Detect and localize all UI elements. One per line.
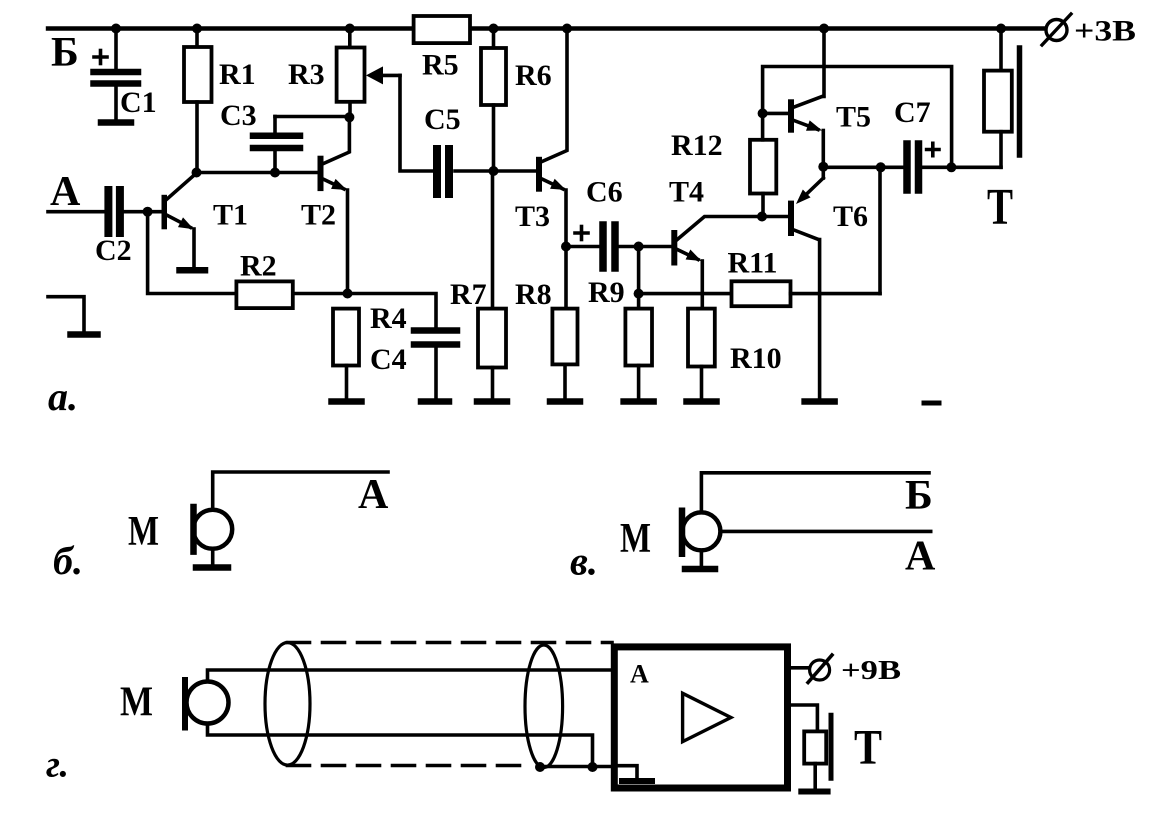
svg-text:T: T xyxy=(987,179,1013,236)
wire base node T2 xyxy=(197,171,318,175)
transistor T6 xyxy=(788,167,823,399)
node junction R1-rail xyxy=(192,24,202,34)
wire bootstrap top xyxy=(763,67,952,168)
transistor T4 xyxy=(671,217,762,309)
svg-text:г.: г. xyxy=(46,744,69,786)
svg-text:в.: в. xyxy=(570,539,598,584)
svg-text:M: M xyxy=(120,679,153,725)
svg-text:а.: а. xyxy=(48,374,78,419)
wire mic to А xyxy=(720,530,930,534)
svg-text:R7: R7 xyxy=(450,278,487,311)
svg-text:T2: T2 xyxy=(301,199,336,232)
node rail-R6 xyxy=(489,24,499,34)
wire node to T3 base xyxy=(494,169,537,173)
resistor R2 xyxy=(236,281,292,308)
node shield/ground xyxy=(588,762,598,772)
wire mic to A xyxy=(213,472,388,509)
ground (R10) xyxy=(687,398,717,405)
stray mark xyxy=(924,401,939,406)
node R3/C3/T2 collector xyxy=(344,112,354,122)
terminal +9V xyxy=(791,655,832,683)
svg-text:T6: T6 xyxy=(833,200,868,233)
ground (mic в) xyxy=(685,566,715,573)
wire power rail right segment xyxy=(470,26,1043,30)
svg-text:Б: Б xyxy=(905,473,933,519)
svg-text:R9: R9 xyxy=(588,276,625,309)
node rail-T3 collector xyxy=(562,24,572,34)
ground (inside amp) xyxy=(617,766,652,781)
transistor T1 xyxy=(162,174,197,268)
svg-text:C1: C1 xyxy=(120,86,157,119)
resistor R8 xyxy=(552,309,577,399)
capacitor C5 xyxy=(437,149,494,194)
svg-text:R12: R12 xyxy=(671,129,723,162)
node T1 collector / R1 xyxy=(192,168,202,178)
capacitor C7 xyxy=(907,143,951,190)
wire shield dashed top xyxy=(288,641,613,645)
capacitor C2 xyxy=(108,190,161,233)
transistor T3 xyxy=(536,29,568,309)
microphone M (г) xyxy=(185,680,229,728)
svg-text:+3B: +3B xyxy=(1074,15,1136,48)
node R9 / R11 xyxy=(634,289,644,299)
input common ground lead xyxy=(48,297,84,331)
amplifier triangle xyxy=(683,693,731,741)
node rail-R3 xyxy=(345,24,355,34)
wire bottom conductor xyxy=(208,724,593,768)
svg-text:C2: C2 xyxy=(95,234,132,267)
wire power rail left segment xyxy=(48,26,414,30)
cable shield ellipse right xyxy=(525,645,563,768)
node C6 / R9 / T4 base xyxy=(634,242,644,252)
svg-text:R6: R6 xyxy=(515,59,552,92)
wire feedback to R2 xyxy=(148,212,237,294)
svg-text:C5: C5 xyxy=(424,103,461,136)
microphone M (в) xyxy=(682,511,720,566)
capacitor C6 xyxy=(566,225,639,268)
svg-text:T: T xyxy=(854,719,882,775)
wire R3 wiper to C5 xyxy=(400,75,433,171)
ground (R9) xyxy=(624,398,654,405)
resistor R7 xyxy=(478,171,506,399)
ground (C1) xyxy=(101,119,131,126)
wire to T4 base xyxy=(639,245,672,249)
resistor R4 xyxy=(333,289,359,399)
svg-text:А: А xyxy=(358,472,389,518)
node R12 / T4 collector / T6 base xyxy=(757,212,767,222)
svg-text:R11: R11 xyxy=(728,247,778,280)
wire output to C7 xyxy=(823,166,903,170)
svg-text:А: А xyxy=(50,169,81,215)
ground (C4) xyxy=(421,398,449,405)
terminal +3V xyxy=(1042,14,1071,45)
node rail-T5 xyxy=(819,24,829,34)
cable shield ellipse left xyxy=(265,643,310,766)
svg-text:M: M xyxy=(128,509,159,555)
capacitor C4 xyxy=(348,294,458,399)
transistor T5 xyxy=(763,29,824,167)
resistor R11 xyxy=(639,167,880,306)
svg-text:R1: R1 xyxy=(219,58,256,91)
node rail-T xyxy=(996,24,1006,34)
transistor T2 xyxy=(318,117,350,293)
svg-text:А: А xyxy=(905,534,936,580)
svg-text:C6: C6 xyxy=(586,176,623,209)
wire shield dashed bottom xyxy=(288,764,528,768)
svg-text:R5: R5 xyxy=(422,49,459,82)
svg-text:T3: T3 xyxy=(515,200,550,233)
svg-text:б.: б. xyxy=(53,538,83,583)
ground (T1 emitter) xyxy=(180,267,206,274)
wire mic to Б xyxy=(701,473,929,511)
svg-text:T1: T1 xyxy=(213,199,248,232)
amplifier box xyxy=(614,647,787,788)
node T3 emitter / C6 xyxy=(561,242,571,252)
ground (R8) xyxy=(550,398,580,405)
node T5 base xyxy=(758,108,768,118)
svg-text:M: M xyxy=(620,516,651,562)
ground (R4) xyxy=(332,398,362,405)
svg-text:R4: R4 xyxy=(370,302,407,335)
wire R2 to node xyxy=(293,292,348,296)
ground (T6) xyxy=(805,398,835,405)
ground (T г) xyxy=(801,789,827,795)
resistor R10 xyxy=(688,309,715,399)
ground (mic б) xyxy=(196,564,228,571)
resistor R1 xyxy=(184,29,212,175)
svg-text:+9B: +9B xyxy=(841,655,901,685)
capacitor C3 xyxy=(253,117,349,173)
node R6/C5/T3 base xyxy=(489,166,499,176)
svg-text:R10: R10 xyxy=(730,342,782,375)
svg-text:Б: Б xyxy=(51,30,79,76)
wire T6 base xyxy=(762,215,788,219)
svg-text:C7: C7 xyxy=(894,96,931,129)
capacitor C1 xyxy=(94,29,139,121)
node C7 / T / bootstrap xyxy=(946,162,956,172)
svg-text:R2: R2 xyxy=(240,250,277,283)
wire C7 to T xyxy=(951,166,1001,170)
earphone T (г) xyxy=(791,705,831,789)
ground (R7) xyxy=(477,398,507,405)
svg-text:C4: C4 xyxy=(370,343,407,376)
resistor R6 xyxy=(481,29,506,172)
resistor R9 xyxy=(625,247,652,399)
earphone T xyxy=(984,29,1020,168)
svg-text:R3: R3 xyxy=(288,58,325,91)
svg-text:R8: R8 xyxy=(515,278,552,311)
resistor R5 (in series with rail) xyxy=(414,16,470,43)
ground (input) xyxy=(71,331,98,338)
microphone M (б) xyxy=(193,507,232,564)
node C2 / T1 base / feedback xyxy=(143,207,153,217)
node output / R11 riser xyxy=(876,162,886,172)
node C3 bottom xyxy=(270,168,280,178)
svg-text:C3: C3 xyxy=(220,99,257,132)
node shield tap xyxy=(535,762,545,772)
svg-text:T5: T5 xyxy=(836,101,871,134)
node output T5/T6 emitters xyxy=(818,162,828,172)
resistor R12 xyxy=(750,140,776,217)
wire input xyxy=(48,210,104,214)
wire shield to box xyxy=(540,765,614,769)
node junction C1-rail xyxy=(111,24,121,34)
trimmer resistor R3 xyxy=(337,29,400,118)
svg-text:T4: T4 xyxy=(669,176,704,209)
wire top conductor xyxy=(208,670,612,682)
svg-text:А: А xyxy=(630,660,649,689)
